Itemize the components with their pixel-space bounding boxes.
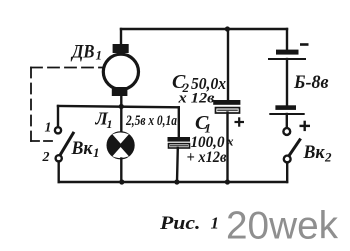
label C2 plus [235,117,245,126]
switch Vk2 top contact [283,128,290,135]
wire terminal 1 riser [57,106,59,127]
svg-text:1: 1 [211,214,220,233]
switch Vk2 bottom contact [284,156,291,163]
capacitor C1 bottom lead [176,148,179,182]
battery B cell 2 negative plate [275,105,296,110]
caption Ris. 1 [159,214,219,235]
svg-text:х: х [226,134,234,149]
label C1 [195,112,211,136]
wire top rail [121,28,287,30]
label DV1 [70,42,102,63]
svg-text:Вк: Вк [71,138,94,159]
capacitor C1 top lead [178,107,180,137]
wire battery top lead [286,29,288,50]
label L1 [95,109,113,132]
label C2 [172,71,226,95]
node junction C1 / bottom rail [174,179,179,184]
dashed link to switch Vk1 [31,140,56,142]
capacitor C2 top lead [227,29,229,100]
svg-text:+ х12в: + х12в [187,149,227,166]
label Vk1 [71,138,100,160]
wire terminal 2 to bottom rail [58,162,60,183]
wire motor bottom lead [120,96,122,132]
svg-text:ДВ: ДВ [70,42,94,63]
label battery minus [300,43,309,46]
dashed link motor housing horizontal [31,67,103,69]
battery B cell 1 negative plate [276,50,299,55]
node junction top rail / C2 [225,26,230,31]
wire middle horizontal [58,106,179,107]
svg-text:Рис.: Рис. [159,214,201,234]
svg-text:2: 2 [42,150,50,165]
wire motor top lead [120,29,122,44]
svg-text:1: 1 [45,121,52,136]
label battery plus [300,121,311,131]
dashed link vertical [30,68,32,142]
switch Vk1 blade [61,133,74,154]
capacitor C2 bottom lead [226,113,228,182]
svg-text:2: 2 [324,150,332,165]
terminal 1 [55,127,61,133]
wire battery mid [286,59,288,105]
wire lamp bottom lead [120,159,122,183]
lamp L1 [108,132,134,158]
terminal 2 [56,155,62,161]
battery B cell 2 positive plate [270,113,303,115]
switch Vk2 blade [289,140,300,156]
svg-text:1: 1 [107,117,113,131]
capacitor C2 [213,100,240,113]
svg-text:1: 1 [93,145,100,160]
node junction middle wire / lamp [119,104,124,109]
svg-text:20wek: 20wek [226,205,338,248]
svg-text:х 12в: х 12в [177,91,214,107]
svg-text:Вк: Вк [303,142,326,163]
capacitor C1 [168,137,191,148]
battery B cell 1 positive plate [269,58,305,60]
svg-text:1: 1 [96,48,103,63]
label Vk2 [303,142,332,165]
wire switch Vk2 to bottom rail [286,162,288,182]
wire bottom rail [59,181,287,183]
node junction C2 / bottom rail [225,179,230,184]
svg-text:2,5в х 0,1а: 2,5в х 0,1а [125,113,177,129]
svg-text:Б-8в: Б-8в [293,72,329,93]
wire battery to switch Vk2 [286,114,288,128]
node junction lamp / bottom rail [119,179,124,184]
motor DV1 [103,44,138,96]
